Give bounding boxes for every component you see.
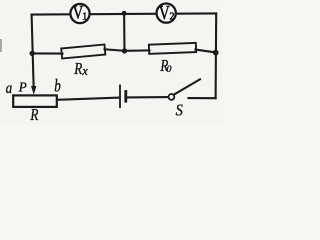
svg-text:1: 1 [82,11,87,22]
svg-text:R: R [30,105,39,124]
svg-text:V: V [159,2,170,24]
svg-text:b: b [54,76,61,96]
svg-text:0: 0 [167,64,172,75]
svg-text:P: P [18,81,27,96]
svg-text:x: x [81,64,88,78]
svg-text:R: R [73,59,82,78]
svg-text:S: S [176,100,183,119]
svg-text:a: a [6,80,13,97]
svg-text:2: 2 [170,12,175,23]
